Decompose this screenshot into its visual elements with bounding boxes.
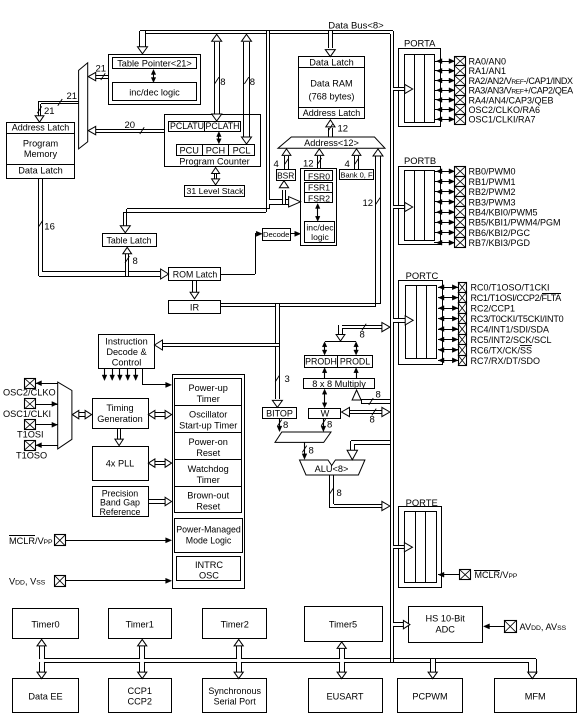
svg-text:Timing: Timing [106,403,133,413]
svg-text:RC7/RX/DT/SDO: RC7/RX/DT/SDO [471,356,541,366]
svg-text:Control: Control [112,358,142,368]
svg-text:BITOP: BITOP [266,409,293,419]
svg-text:INTRC: INTRC [195,560,223,570]
svg-text:RB7/KBI3/PGD: RB7/KBI3/PGD [469,238,531,248]
svg-text:OSC1/CLKI/RA7: OSC1/CLKI/RA7 [469,115,536,125]
svg-text:PRODH: PRODH [305,357,337,367]
svg-text:FSR2: FSR2 [308,193,330,203]
svg-text:FSR1: FSR1 [308,182,330,192]
svg-text:8: 8 [309,446,314,457]
svg-text:RA1/AN1: RA1/AN1 [469,66,507,76]
svg-text:RB2/PWM2: RB2/PWM2 [469,187,516,197]
svg-text:Table Latch: Table Latch [107,236,152,246]
svg-text:Brown-out: Brown-out [187,491,229,501]
svg-text:Timer5: Timer5 [329,619,357,629]
svg-text:MCLR/V: MCLR/V [9,536,45,546]
svg-text:8: 8 [337,488,342,499]
svg-text:RC5/INT2/SCK/SCL: RC5/INT2/SCK/SCL [471,335,552,345]
svg-text:31 Level Stack: 31 Level Stack [187,186,245,196]
svg-text:21: 21 [67,91,78,102]
svg-text:20: 20 [125,120,136,131]
svg-text:inc/dec logic: inc/dec logic [129,88,180,98]
svg-text:8: 8 [220,77,225,88]
svg-text:OSC2/CLKO/RA6: OSC2/CLKO/RA6 [469,105,541,115]
svg-text:RB3/PWM3: RB3/PWM3 [469,197,516,207]
svg-text:Reset: Reset [196,502,220,512]
svg-text:12: 12 [363,198,374,209]
svg-text:Data Latch: Data Latch [309,58,353,68]
svg-text:4x PLL: 4x PLL [106,459,135,469]
svg-text:Instruction: Instruction [105,337,147,347]
svg-text:8: 8 [360,330,365,341]
svg-text:PCU: PCU [179,146,198,156]
svg-text:PCPWM: PCPWM [412,691,447,701]
svg-text:8 x 8 Multiply: 8 x 8 Multiply [312,379,366,389]
svg-text:IR: IR [190,302,200,312]
svg-text:RC2/CCP1: RC2/CCP1 [471,304,516,314]
svg-text:4: 4 [274,159,279,170]
svg-text:Timer: Timer [197,394,220,404]
svg-text:W: W [321,408,330,418]
svg-text:RB5/KBI1/PWM4/PGM: RB5/KBI1/PWM4/PGM [469,218,561,228]
svg-text:Address<12>: Address<12> [304,138,359,148]
svg-text:RB1/PWM1: RB1/PWM1 [469,177,516,187]
svg-text:Watchdog: Watchdog [188,464,229,474]
svg-text:21: 21 [96,64,107,75]
svg-text:PORTE: PORTE [406,497,438,508]
svg-text:Reset: Reset [196,448,220,458]
svg-text:FSR0: FSR0 [308,171,330,181]
svg-text:OSC: OSC [199,571,219,581]
svg-text:CCP1: CCP1 [127,686,152,696]
svg-text:Decode: Decode [263,230,290,239]
svg-text:8: 8 [376,390,381,401]
svg-text:Table Pointer<21>: Table Pointer<21> [117,59,192,69]
svg-text:Mode Logic: Mode Logic [186,535,232,545]
svg-text:Timer2: Timer2 [221,619,249,629]
svg-text:4: 4 [345,159,350,170]
svg-text:RC1/T1OSI/CCP2/FLTA: RC1/T1OSI/CCP2/FLTA [471,293,562,303]
svg-text:MFM: MFM [525,691,546,701]
svg-text:RA4/AN4/CAP3/QEB: RA4/AN4/CAP3/QEB [469,95,554,105]
svg-text:Memory: Memory [24,149,58,159]
svg-text:8: 8 [250,77,255,88]
svg-text:Program Counter: Program Counter [179,156,249,166]
svg-text:Timer0: Timer0 [31,619,59,629]
svg-text:PP: PP [44,539,54,546]
svg-text:Serial Port: Serial Port [214,697,257,707]
svg-text:Generation: Generation [97,414,142,424]
svg-text:OSC2/CLKO: OSC2/CLKO [3,388,56,398]
svg-text:8: 8 [370,415,375,426]
svg-text:RB0/PWM0: RB0/PWM0 [469,167,516,177]
svg-text:HS 10-Bit: HS 10-Bit [426,614,466,624]
svg-text:Data RAM: Data RAM [310,79,352,89]
svg-text:Reference: Reference [100,507,141,517]
svg-text:Power-Managed: Power-Managed [176,524,241,534]
svg-text:RB6/KBI2/PGC: RB6/KBI2/PGC [469,228,531,238]
svg-text:Address Latch: Address Latch [303,108,361,118]
svg-text:T1OSO: T1OSO [16,451,47,461]
svg-text:RC6/TX/CK/SS: RC6/TX/CK/SS [471,345,533,355]
svg-text:logic: logic [311,232,329,242]
svg-text:Bank 0, F: Bank 0, F [340,170,373,179]
svg-text:PORTA: PORTA [404,38,436,49]
svg-text:ROM Latch: ROM Latch [173,270,218,280]
svg-text:8: 8 [327,420,332,431]
svg-text:BSR: BSR [277,170,294,180]
svg-text:(768 bytes): (768 bytes) [309,92,355,102]
svg-text:OSC1/CLKI: OSC1/CLKI [3,409,51,419]
svg-text:8: 8 [283,420,288,431]
svg-text:16: 16 [44,221,55,232]
svg-text:T1OSI: T1OSI [17,430,44,440]
svg-text:CCP2: CCP2 [127,697,152,707]
svg-text:21: 21 [44,106,55,117]
svg-text:12: 12 [303,159,314,170]
svg-text:Data EE: Data EE [28,691,62,701]
svg-text:PCL: PCL [233,146,251,156]
svg-text:Data Latch: Data Latch [18,166,62,176]
svg-text:Decode &: Decode & [106,347,146,357]
svg-text:inc/dec: inc/dec [306,222,334,232]
svg-text:12: 12 [338,124,349,135]
svg-text:RC0/T1OSO/T1CKI: RC0/T1OSO/T1CKI [471,283,550,293]
svg-text:RB4/KBI0/PWM5: RB4/KBI0/PWM5 [469,208,538,218]
svg-text:Address Latch: Address Latch [12,123,70,133]
svg-text:Timer: Timer [197,475,220,485]
svg-text:3: 3 [285,374,290,385]
svg-text:PCLATH: PCLATH [205,121,239,131]
svg-text:ADC: ADC [435,625,455,635]
svg-text:EUSART: EUSART [326,691,363,701]
svg-text:PRODL: PRODL [340,357,370,367]
svg-text:8: 8 [133,256,138,267]
svg-text:Synchronous: Synchronous [208,686,261,696]
svg-text:Power-up: Power-up [189,383,228,393]
svg-text:Timer1: Timer1 [126,619,154,629]
svg-text:PORTB: PORTB [404,155,436,166]
svg-text:Data Bus<8>: Data Bus<8> [328,20,384,31]
svg-text:RC3/T0CKI/T5CKI/INT0: RC3/T0CKI/T5CKI/INT0 [471,314,564,324]
svg-text:Start-up Timer: Start-up Timer [179,421,237,431]
svg-text:RA0/AN0: RA0/AN0 [469,57,507,67]
svg-text:Power-on: Power-on [189,437,228,447]
svg-text:Program: Program [23,138,59,148]
svg-text:PORTC: PORTC [406,270,439,281]
svg-text:Oscillator: Oscillator [189,410,227,420]
svg-text:RC4/INT1/SDI/SDA: RC4/INT1/SDI/SDA [471,324,550,334]
svg-text:PCLATU: PCLATU [170,121,204,131]
svg-text:PCH: PCH [206,146,225,156]
svg-text:ALU<8>: ALU<8> [315,464,349,474]
